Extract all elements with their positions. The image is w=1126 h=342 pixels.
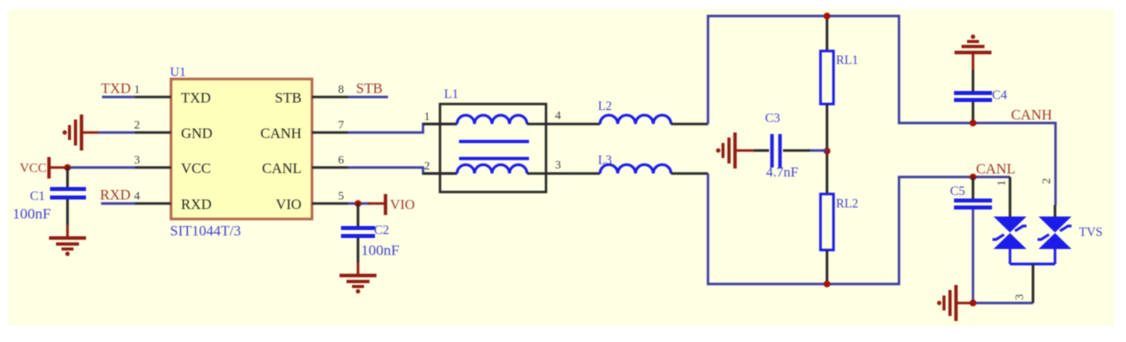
- svg-text:C2: C2: [374, 222, 389, 237]
- svg-text:VCC: VCC: [181, 161, 211, 177]
- svg-text:SIT1044T/3: SIT1044T/3: [170, 224, 241, 240]
- svg-text:4.7nF: 4.7nF: [766, 166, 799, 181]
- svg-text:CANL: CANL: [262, 161, 301, 177]
- svg-text:C1: C1: [30, 188, 45, 203]
- svg-text:L1: L1: [444, 86, 458, 101]
- svg-text:3: 3: [555, 158, 561, 172]
- svg-text:2: 2: [424, 159, 430, 173]
- svg-text:100nF: 100nF: [13, 207, 51, 223]
- svg-text:VCC: VCC: [20, 160, 47, 175]
- svg-text:CANH: CANH: [1011, 108, 1053, 124]
- svg-text:STB: STB: [356, 81, 383, 97]
- svg-text:RL1: RL1: [836, 53, 858, 67]
- svg-text:RXD: RXD: [181, 197, 212, 213]
- svg-text:GND: GND: [181, 126, 212, 142]
- svg-text:RXD: RXD: [100, 188, 131, 204]
- svg-text:C3: C3: [765, 110, 780, 125]
- svg-text:6: 6: [338, 153, 344, 167]
- svg-text:C5: C5: [950, 183, 965, 198]
- svg-text:1: 1: [134, 82, 140, 96]
- svg-text:4: 4: [134, 189, 140, 203]
- svg-text:VIO: VIO: [276, 197, 302, 213]
- svg-text:3: 3: [1012, 294, 1026, 300]
- svg-text:7: 7: [338, 118, 344, 132]
- svg-text:STB: STB: [275, 90, 302, 106]
- svg-text:100nF: 100nF: [361, 243, 399, 259]
- svg-text:TXD: TXD: [181, 90, 211, 106]
- svg-text:L2: L2: [598, 99, 612, 113]
- svg-text:2: 2: [134, 118, 140, 132]
- svg-text:U1: U1: [170, 64, 186, 79]
- svg-text:2: 2: [1039, 178, 1053, 184]
- svg-text:VIO: VIO: [390, 198, 415, 213]
- svg-text:TXD: TXD: [101, 81, 131, 97]
- svg-text:5: 5: [338, 189, 344, 203]
- svg-text:CANL: CANL: [976, 162, 1015, 178]
- svg-text:CANH: CANH: [260, 126, 302, 142]
- svg-text:C4: C4: [992, 87, 1008, 102]
- svg-text:1: 1: [994, 180, 1008, 186]
- svg-text:4: 4: [555, 108, 561, 122]
- svg-text:1: 1: [424, 109, 430, 123]
- svg-text:TVS: TVS: [1079, 225, 1103, 239]
- svg-text:RL2: RL2: [836, 197, 858, 211]
- svg-text:3: 3: [134, 153, 140, 167]
- svg-text:8: 8: [338, 82, 344, 96]
